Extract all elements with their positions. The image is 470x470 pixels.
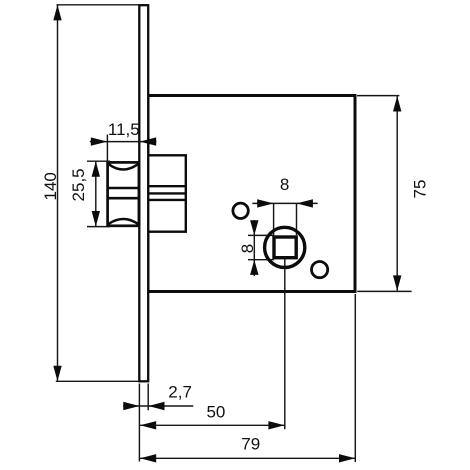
svg-text:11,5: 11,5 [108,120,140,139]
svg-text:50: 50 [206,403,225,422]
svg-text:2,7: 2,7 [168,382,192,401]
svg-text:25,5: 25,5 [69,168,88,201]
svg-text:8: 8 [280,175,289,194]
svg-text:140: 140 [41,172,60,200]
svg-text:75: 75 [411,180,430,199]
svg-text:79: 79 [241,434,260,453]
svg-text:8: 8 [238,244,257,253]
